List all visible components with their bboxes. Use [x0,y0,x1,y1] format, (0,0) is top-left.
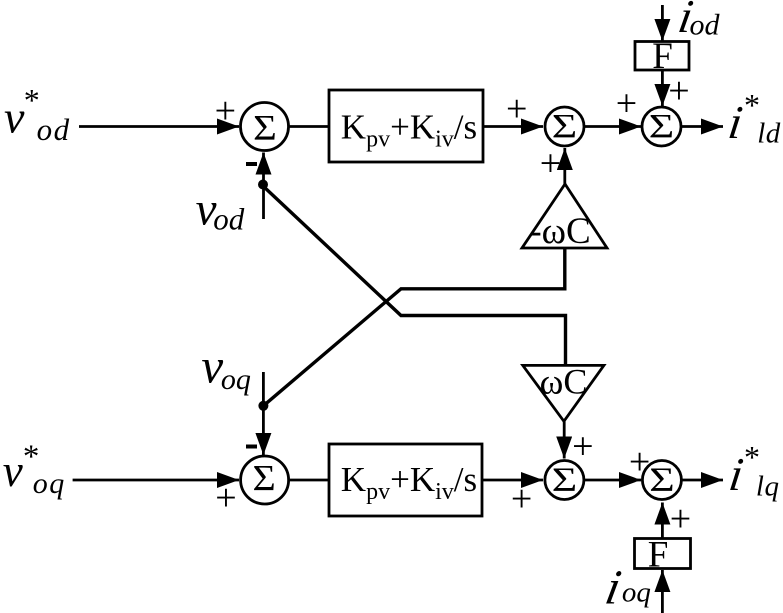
svg-text:+: + [540,143,561,185]
svg-text:+: + [616,83,637,125]
svg-text:+: + [572,426,593,468]
svg-text:+: + [629,441,650,483]
svg-text:+: + [511,478,532,520]
svg-text:lq: lq [756,471,780,503]
svg-text:+: + [506,88,527,130]
svg-text:Σ: Σ [552,108,577,145]
svg-text:od: od [213,202,245,237]
svg-text:*: * [744,439,760,475]
svg-text:v: v [3,446,23,496]
svg-text:Kpv+Kiv/s: Kpv+Kiv/s [341,460,477,505]
svg-text:oq: oq [33,467,66,500]
svg-text:+: + [670,498,691,540]
svg-text:ωC: ωC [540,362,588,402]
svg-text:oq: oq [221,363,251,396]
svg-text:i: i [725,97,745,149]
svg-text:oq: oq [622,577,651,609]
svg-text:Σ: Σ [253,109,277,148]
svg-text:-ωC: -ωC [529,211,590,252]
svg-text:od: od [690,9,721,42]
svg-text:ld: ld [757,118,781,150]
svg-text:F: F [652,36,673,77]
svg-text:Kpv+Kiv/s: Kpv+Kiv/s [341,108,477,153]
svg-text:Σ: Σ [649,461,674,498]
svg-text:Σ: Σ [252,459,275,499]
svg-text:+: + [215,90,236,132]
svg-text:+: + [215,477,236,519]
svg-text:od: od [37,112,71,147]
svg-text:F: F [648,535,669,576]
svg-text:v: v [4,91,25,142]
svg-text:Σ: Σ [649,108,674,145]
